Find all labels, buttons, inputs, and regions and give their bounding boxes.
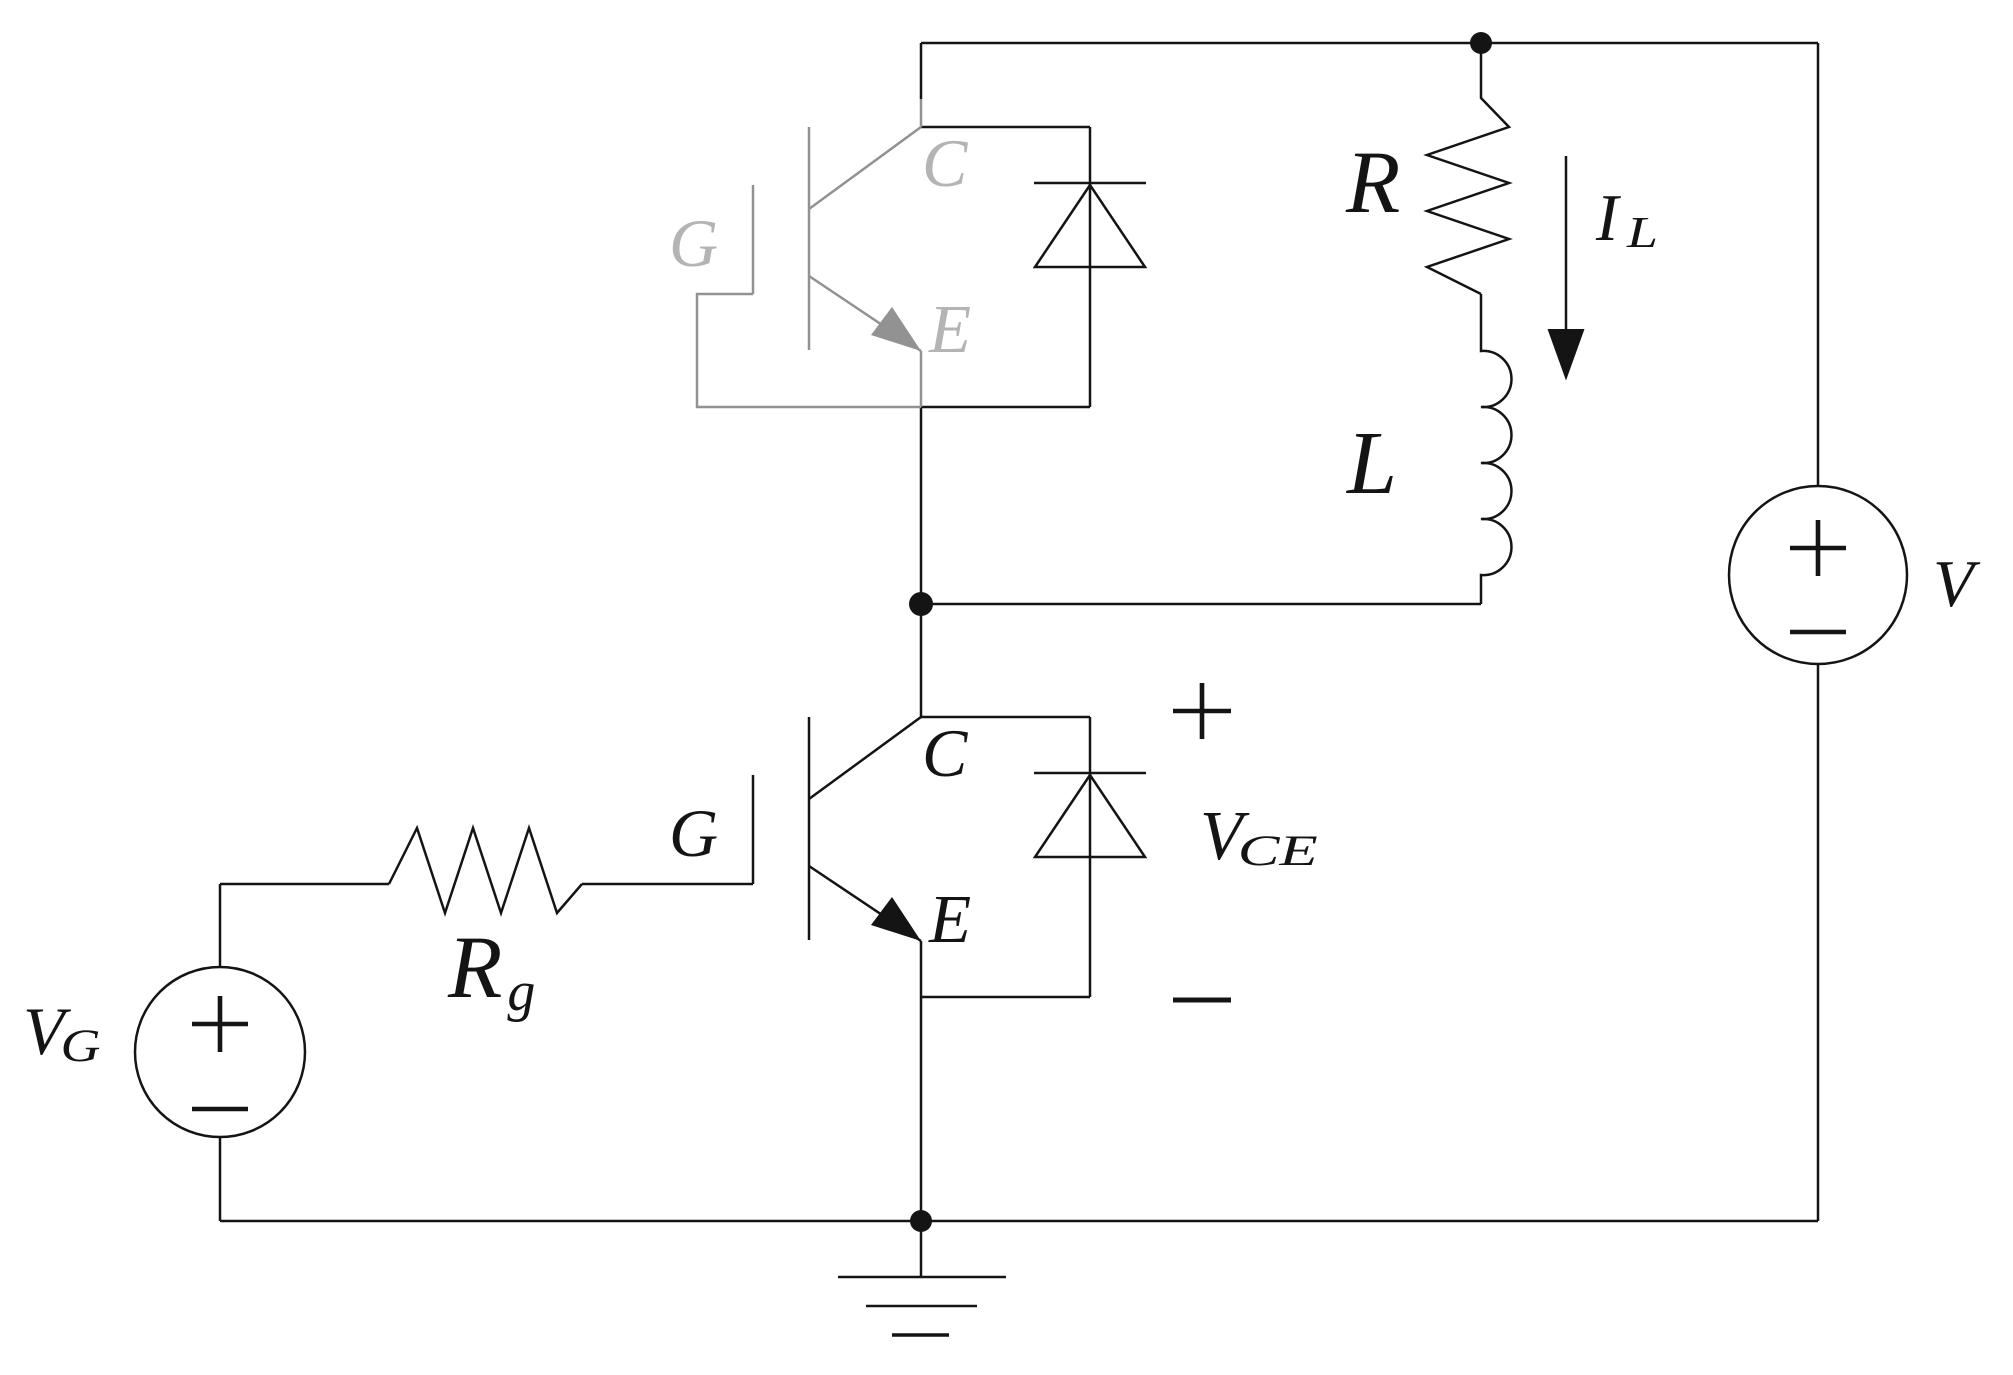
transistor Q1 (off, gray) <box>697 99 921 407</box>
source VG circle <box>135 967 305 1137</box>
Q1 collector lead <box>809 127 921 209</box>
transistor Q2 collector lead <box>809 717 921 799</box>
node bottom <box>910 1210 932 1232</box>
svg-text:I: I <box>1595 181 1621 255</box>
svg-text:E: E <box>928 881 971 957</box>
svg-text:C: C <box>922 125 968 201</box>
transistor Q2 gate bar <box>752 775 755 884</box>
svg-text:E: E <box>928 291 971 367</box>
Q1 emitter arrowhead <box>871 307 921 351</box>
wire top rect bottom (black part) <box>921 406 1090 409</box>
wire mid vertical <box>920 407 923 717</box>
diode D1 cathode bar <box>1034 182 1146 185</box>
Q1 emitter stub <box>920 351 923 407</box>
svg-text:V: V <box>1933 547 1981 621</box>
wire Vg to Rg <box>220 884 389 967</box>
diode D2 cathode bar <box>1034 772 1146 775</box>
diode D1 triangle <box>1035 185 1145 267</box>
ground bar 1 <box>838 1276 1006 1279</box>
wire gate lead <box>582 883 753 886</box>
wire emitter to ground node <box>920 997 923 1221</box>
ground bar 3 <box>892 1333 949 1337</box>
Q1 emitter lead <box>809 276 921 351</box>
wire Q2 emitter stub <box>920 941 923 997</box>
plus sign VCE <box>1173 683 1231 739</box>
wire load bottom <box>921 603 1481 606</box>
source V minus <box>1790 630 1846 635</box>
transistor Q2 emitter arrowhead <box>871 897 921 941</box>
wire bottom rect bottom <box>921 996 1090 999</box>
current arrow IL head <box>1548 329 1585 381</box>
resistor R <box>1427 43 1509 294</box>
ground bar 2 <box>866 1305 977 1308</box>
node top <box>1470 32 1492 54</box>
wire Vg bottom <box>219 1137 222 1221</box>
Q1 body bar <box>808 127 811 350</box>
svg-text:R: R <box>1345 134 1400 232</box>
wire top IGBT C bar <box>921 126 1090 129</box>
wire from source V bottom to bottom rail <box>1817 664 1820 1221</box>
svg-text:L: L <box>1345 414 1397 513</box>
source V circle <box>1729 486 1907 664</box>
svg-text:L: L <box>1626 208 1658 257</box>
diode D2 line <box>1089 717 1092 997</box>
svg-text:G: G <box>669 795 718 871</box>
diode D2 triangle <box>1035 775 1145 857</box>
transistor Q2 body bar <box>808 717 811 940</box>
minus sign VCE <box>1173 998 1231 1003</box>
node mid <box>909 592 933 616</box>
wire right side down to source V <box>1817 43 1820 486</box>
source V plus <box>1790 520 1846 576</box>
ground stub <box>920 1221 923 1277</box>
svg-text:G: G <box>669 205 718 281</box>
source VG plus <box>192 996 248 1052</box>
Q1 gate bar <box>752 185 755 294</box>
Q1 collector stub <box>920 99 923 127</box>
inductor L <box>1481 294 1511 604</box>
wire top rail <box>921 42 1818 45</box>
transistor Q2 emitter lead <box>809 866 921 941</box>
diode D1 line <box>1089 127 1092 407</box>
source VG minus <box>192 1107 248 1112</box>
resistor Rg <box>389 828 582 913</box>
current arrow IL <box>1565 156 1568 330</box>
wire top collector drop <box>920 43 923 99</box>
Q1 gate-emitter tie wire <box>697 294 921 407</box>
wire bottom IGBT C bar <box>921 716 1090 719</box>
wire bottom rail <box>220 1220 1818 1223</box>
svg-text:C: C <box>922 715 968 791</box>
